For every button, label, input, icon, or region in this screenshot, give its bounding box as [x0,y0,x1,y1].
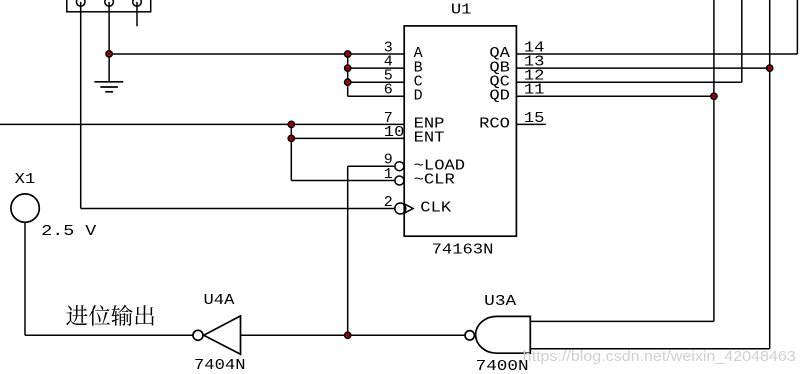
wire QB output [516,0,769,349]
svg-text:QD: QD [489,88,510,105]
label pin D [414,88,423,105]
node junction ~LOAD feedback [345,332,351,338]
wire RCO stub [516,123,545,125]
svg-text:7404N: 7404N [194,357,246,374]
wire pin C [348,81,405,83]
wire QA output [516,0,797,54]
pin number 4 [384,54,393,71]
svg-text:6: 6 [384,82,393,99]
pin 1 ~CLR bubble [395,176,404,185]
svg-text:2: 2 [384,194,393,211]
wire ground to pin A [109,53,404,55]
node junction ground/A wire [106,51,112,57]
label 进位输出 carry output [66,305,154,326]
label pin ~CLR [414,172,455,189]
pin number 6 [384,82,393,99]
NAND gate U3A body [476,316,531,353]
node junction C tie [345,79,351,85]
label pin B [414,59,423,76]
label pin QA [489,45,510,62]
label U3A [484,293,516,310]
pin number 2 [384,194,393,211]
pin number 14 [524,39,545,56]
label 7400N [476,358,529,374]
pin number 15 [524,110,545,127]
label pin QB [489,59,510,76]
wire pin B [348,67,405,69]
label pin C [414,73,423,90]
label X1 [15,171,36,188]
NAND gate U3A bubble [465,331,474,340]
svg-text:CLK: CLK [420,200,451,217]
label 7404N [194,357,246,374]
wire ENP from left edge [0,123,404,125]
svg-text:U1: U1 [451,2,472,19]
label U1 [451,2,472,19]
label pin CLK [420,200,451,217]
wire inverter input to NAND output [241,334,465,336]
wire ABCD tie vertical [347,54,349,96]
label 74163N [432,241,494,258]
svg-text:U3A: U3A [484,293,516,310]
svg-text:D: D [414,88,423,105]
node junction B tie [345,65,351,71]
node junction ENP tie [288,121,294,127]
label U4A [204,292,235,309]
svg-text:https://blog.csdn.net/weixin_4: https://blog.csdn.net/weixin_42048463 [523,348,796,365]
svg-text:10: 10 [384,124,405,141]
wire pin ~LOAD [348,165,395,167]
svg-text:U4A: U4A [204,292,235,309]
label pin ENT [414,130,445,147]
connector J1 [67,0,151,12]
svg-text:7400N: 7400N [476,358,529,374]
lamp X1 [11,194,39,222]
watermark [523,348,796,365]
svg-text:~CLR: ~CLR [414,172,455,189]
pin number 12 [524,68,545,85]
wire QD output [516,0,714,321]
wire connector pin3 stub [136,2,138,26]
svg-text:X1: X1 [15,171,36,188]
inverter U4A bubble [193,330,203,340]
wire QC output [516,0,741,82]
wire connector pin2 to ground junction [108,2,110,54]
label pin ENP [414,116,445,133]
pin number 10 [384,124,405,141]
chip U1 box [404,26,516,236]
pin 2 CLK bubble [395,203,406,214]
ground [94,54,123,92]
svg-text:2.5 V: 2.5 V [41,223,96,240]
svg-text:ENT: ENT [414,130,445,147]
wire pin ENT [291,137,404,139]
node junction A tie [345,51,351,57]
wire pin D [348,95,405,97]
wire ~LOAD feedback vertical [347,166,349,335]
label pin QC [489,73,510,90]
pin number 3 [384,39,393,56]
label pin ~LOAD [414,157,466,174]
label pin QD [489,88,510,105]
wire pin ~CLR [291,180,395,182]
pin number 11 [524,82,545,99]
pin number 7 [384,110,393,127]
pin number 5 [384,68,393,85]
CLK edge triangle [404,204,413,213]
label pin RCO [479,116,510,133]
svg-text:RCO: RCO [479,116,510,133]
node junction ENT tie [288,135,294,141]
node junction QB [767,65,773,71]
wire X1 to inverter output [25,222,193,335]
svg-text:1: 1 [384,166,393,183]
pin number 9 [384,152,393,169]
inverter U4A triangle [204,316,241,354]
label pin A [414,45,423,62]
wire connector pin1 to CLK [81,2,395,209]
wire ENP/ENT/CLR tie vertical [290,124,292,180]
pin number 13 [524,54,545,71]
svg-text:74163N: 74163N [432,241,494,258]
pin 9 ~LOAD bubble [395,162,404,171]
label 2.5 V [41,223,96,240]
pin number 1 [384,166,393,183]
node junction QD [711,93,717,99]
